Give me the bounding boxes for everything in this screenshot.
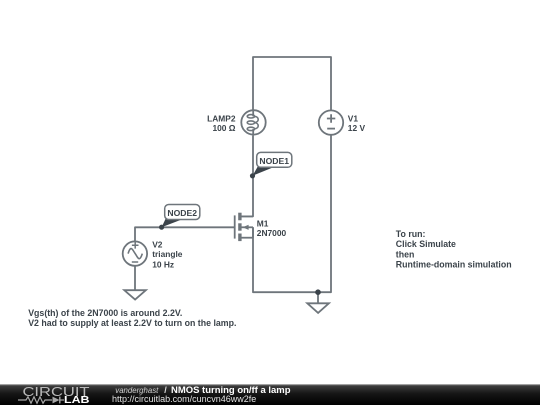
svg-text:triangle: triangle — [152, 249, 183, 259]
svg-text:Click Simulate: Click Simulate — [396, 239, 456, 249]
svg-text:NODE1: NODE1 — [259, 156, 289, 166]
svg-text:http://circuitlab.com/cuncvn46: http://circuitlab.com/cuncvn46ww2fe — [112, 394, 256, 404]
svg-text:Runtime-domain simulation: Runtime-domain simulation — [396, 260, 512, 270]
ground symbol at bottom rail — [307, 303, 329, 313]
transistor M1 2N7000 (NMOS) — [235, 213, 253, 241]
wire lamp bottom to mosfet drain — [241, 136, 254, 217]
value labels V2 / triangle / 10 Hz — [152, 240, 183, 270]
voltage source V2 — [123, 241, 147, 265]
wire ground stub bottom rail — [317, 292, 319, 303]
wire top loop: lamp top to V1 top — [253, 57, 331, 110]
svg-text:V2: V2 — [152, 240, 163, 250]
svg-text:10 Hz: 10 Hz — [152, 259, 174, 269]
value labels LAMP2 / 100 Ω — [207, 114, 236, 133]
svg-text:12 V: 12 V — [348, 123, 366, 133]
svg-text:then: then — [396, 249, 415, 259]
svg-text:NODE2: NODE2 — [167, 208, 197, 218]
annotation: Vgs note — [28, 308, 236, 328]
wire V2 top to mosfet gate — [135, 227, 235, 241]
junction dot at NODE2 — [159, 225, 164, 230]
logo CIRCUIT LAB — [18, 384, 90, 405]
value labels V1 / 12 V — [348, 114, 366, 133]
svg-text:V2 had to supply at least 2.2V: V2 had to supply at least 2.2V to turn o… — [28, 318, 236, 328]
junction dot at NODE1 — [250, 173, 255, 178]
svg-text:2N7000: 2N7000 — [257, 228, 287, 238]
junction dot bottom rail — [315, 289, 321, 295]
node NODE2 flag — [162, 205, 200, 228]
wire V2 bottom to ground — [134, 266, 136, 290]
footer text — [112, 385, 291, 404]
svg-text:Vgs(th) of the 2N7000 is aroun: Vgs(th) of the 2N7000 is around 2.2V. — [28, 308, 182, 318]
ground symbol under V2 — [124, 290, 146, 299]
value labels M1 / 2N7000 — [257, 218, 287, 237]
svg-text:LAB: LAB — [64, 394, 90, 405]
node NODE1 flag — [253, 152, 292, 175]
lamp LAMP2 (100 Ω) — [241, 110, 265, 135]
annotation: to run instructions — [396, 229, 512, 270]
svg-text:To run:: To run: — [396, 229, 426, 239]
wire V1 bottom to bottom rail to mosfet source — [253, 135, 331, 293]
voltage source V1 — [319, 110, 343, 134]
svg-text:100 Ω: 100 Ω — [212, 123, 235, 133]
